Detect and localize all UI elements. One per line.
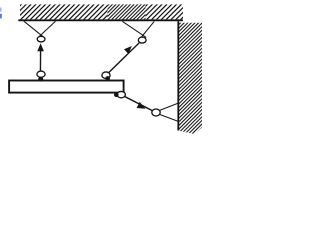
ceiling line	[18, 19, 183, 21]
rope arrow left	[39, 49, 41, 75]
arrowhead bottom	[137, 102, 146, 109]
wall line	[177, 21, 179, 130]
beam	[9, 81, 124, 93]
hanger V right: line a	[122, 21, 146, 37]
hanger V right: line b	[140, 21, 154, 38]
wall bracket line bottom	[157, 113, 179, 121]
arrowhead left	[37, 43, 44, 51]
ring hanger left	[37, 36, 45, 42]
ring wall bracket	[152, 109, 160, 116]
rope arrow right	[106, 43, 139, 75]
ceiling hatch denser patch	[108, 4, 146, 19]
wall hatch	[179, 23, 202, 134]
dot beam bottom	[114, 93, 119, 98]
wall bracket line top	[157, 103, 179, 112]
ring beam bottom	[117, 91, 125, 97]
blue artifact left edge	[0, 8, 2, 19]
dot beam right-top	[105, 76, 110, 81]
hanger V left: line a	[24, 21, 45, 38]
ring hanger right	[138, 37, 146, 43]
ring beam left	[37, 71, 45, 77]
hanger V left: line b	[38, 21, 56, 38]
rope bottom	[121, 95, 153, 111]
ceiling hatch	[20, 4, 183, 19]
dot beam left	[38, 77, 43, 82]
arrowhead right	[124, 46, 132, 54]
ring beam right-top	[102, 72, 110, 79]
